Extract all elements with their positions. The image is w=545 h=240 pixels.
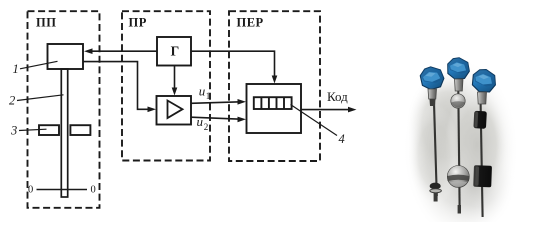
arrowhead Kod output <box>348 107 357 113</box>
svg-text:u: u <box>199 84 206 99</box>
right sensor rod <box>481 103 483 217</box>
svg-text:0: 0 <box>28 185 33 196</box>
left sensor cap <box>419 65 445 90</box>
svg-text:ПР: ПР <box>129 16 147 30</box>
svg-text:Г: Г <box>171 43 180 58</box>
paddle 3 left <box>39 125 59 135</box>
right sensor fitting <box>478 92 487 104</box>
svg-text:2: 2 <box>204 122 209 132</box>
wire u2 amplifier to register <box>191 117 241 119</box>
wire G to block1 <box>88 50 157 52</box>
arrowhead into register top <box>272 76 278 84</box>
zero level line <box>37 189 88 191</box>
block 1 sensing element <box>48 44 84 69</box>
svg-text:4: 4 <box>339 132 345 146</box>
block amplifier <box>157 96 192 125</box>
right sensor lower cylinder float <box>473 165 492 187</box>
svg-text:2: 2 <box>9 94 15 108</box>
svg-text:Код: Код <box>327 89 348 104</box>
wire G down to amplifier <box>174 66 176 91</box>
middle sensor rod <box>458 90 459 206</box>
middle sensor fitting <box>455 79 464 91</box>
svg-text:3: 3 <box>10 124 17 138</box>
arrowhead into block1 <box>84 48 93 54</box>
left sensor tip <box>434 193 438 202</box>
wire G to PER register <box>191 51 275 78</box>
right sensor <box>471 68 498 217</box>
svg-text:ПП: ПП <box>36 16 56 30</box>
wire Kod output <box>301 109 350 111</box>
wire u1 amplifier to register <box>191 102 241 104</box>
svg-text:ПЕР: ПЕР <box>237 16 264 30</box>
arrowhead u1 into register <box>238 99 247 105</box>
leader line label 1 <box>20 61 58 69</box>
left sensor rod <box>434 96 437 196</box>
left sensor fitting <box>428 89 437 99</box>
leader line label 4 <box>291 105 338 136</box>
dashed box PP <box>28 11 100 208</box>
block register converter <box>247 84 302 133</box>
wire block1 to amplifier <box>83 62 151 110</box>
middle sensor threaded tip <box>458 205 461 214</box>
rod 2 <box>61 69 67 197</box>
right sensor upper cylinder float <box>473 111 486 129</box>
amplifier triangle <box>168 101 183 119</box>
arrowhead u2 into register <box>238 117 247 123</box>
middle sensor upper ball float <box>451 94 465 108</box>
left sensor <box>419 65 445 201</box>
block G generator <box>157 37 191 66</box>
leader line label 3 <box>19 129 47 130</box>
svg-text:1: 1 <box>13 62 19 76</box>
right sensor cap <box>471 68 498 95</box>
arrowhead into amplifier top <box>172 88 178 96</box>
register cells <box>254 97 292 109</box>
middle sensor lower ball float <box>447 166 469 188</box>
middle sensor <box>447 57 471 213</box>
arrowhead into amplifier left <box>148 107 157 113</box>
dashed box PER <box>229 11 320 161</box>
left sensor washer <box>430 189 442 193</box>
dashed box PR <box>122 11 210 160</box>
leader line label 2 <box>17 95 64 101</box>
svg-text:u: u <box>197 114 204 129</box>
photo background soft grey cloud <box>403 58 519 240</box>
paddle 3 right <box>70 125 90 135</box>
svg-text:0: 0 <box>91 185 96 196</box>
middle sensor cap <box>447 57 471 80</box>
left sensor float knob <box>430 183 441 190</box>
svg-text:1: 1 <box>206 91 211 101</box>
